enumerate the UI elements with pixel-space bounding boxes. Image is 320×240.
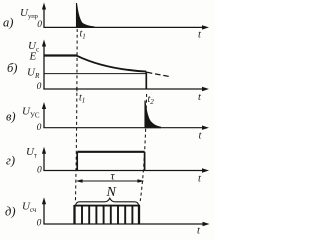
svg-text:0: 0 [37, 82, 42, 92]
row g: tau arrowhead left [76, 179, 83, 183]
row d: y-axis [43, 204, 45, 225]
svg-text:0: 0 [37, 20, 42, 30]
row b: t1 axis tick [76, 87, 78, 92]
dashed marker line t1 [75, 29, 77, 203]
row a: x-axis arrowhead [202, 25, 209, 29]
row g: y-axis arrowhead [42, 147, 46, 154]
row b: x-axis arrowhead [202, 87, 209, 91]
row v: y-axis [43, 108, 45, 128]
row b: x-axis [43, 88, 204, 90]
row b: waveform flat at E [44, 54, 77, 56]
row b: UR threshold line [44, 73, 146, 75]
svg-text:а): а) [3, 16, 13, 30]
row a: y-axis [43, 8, 45, 28]
row g: gate pulse left edge [76, 152, 78, 171]
row g: tau interval arrow [79, 180, 141, 182]
dashed marker line t2 [140, 94, 146, 201]
row g: x-axis arrowhead [202, 168, 209, 172]
svg-text:E: E [29, 51, 37, 63]
svg-text:д): д) [5, 205, 16, 219]
svg-text:в): в) [6, 110, 16, 124]
row a: spike pulse at t1 [77, 3, 95, 27]
row d: overbrace under N [76, 198, 139, 205]
row v: x-axis [43, 127, 204, 129]
row b: waveform drop at t2 [145, 72, 147, 89]
row b: y-axis arrowhead [42, 40, 46, 47]
svg-text:0: 0 [37, 123, 42, 133]
row d: counting pulses right edge [138, 205, 140, 224]
row d: counting pulses top line [74, 205, 140, 207]
svg-text:0: 0 [37, 219, 42, 229]
row g: tau arrowhead right [137, 179, 144, 183]
svg-text:б): б) [7, 61, 17, 75]
svg-text:0: 0 [37, 166, 42, 176]
row b: y-axis [43, 45, 45, 90]
row v: spike pulse at t2 [145, 101, 161, 128]
row g: y-axis [43, 153, 45, 171]
row b: dashed exponential continuation [147, 72, 170, 76]
row v: y-axis arrowhead [42, 102, 46, 109]
row d: y-axis arrowhead [42, 197, 46, 204]
row a: x-axis [43, 26, 204, 28]
row g: gate pulse top [77, 151, 144, 153]
row v: x-axis arrowhead [202, 126, 209, 130]
row g: x-axis [43, 170, 204, 172]
row b: waveform exponential discharge [77, 56, 146, 72]
svg-text:N: N [106, 185, 117, 200]
row d: x-axis [43, 223, 204, 225]
row d: x-axis arrowhead [203, 222, 210, 226]
row d: counting pulse bars [82, 206, 132, 225]
svg-text:г): г) [6, 154, 15, 168]
row a: y-axis arrowhead [42, 3, 46, 10]
row d: counting pulses left edge [73, 205, 75, 224]
row g: gate pulse right edge [144, 152, 146, 171]
